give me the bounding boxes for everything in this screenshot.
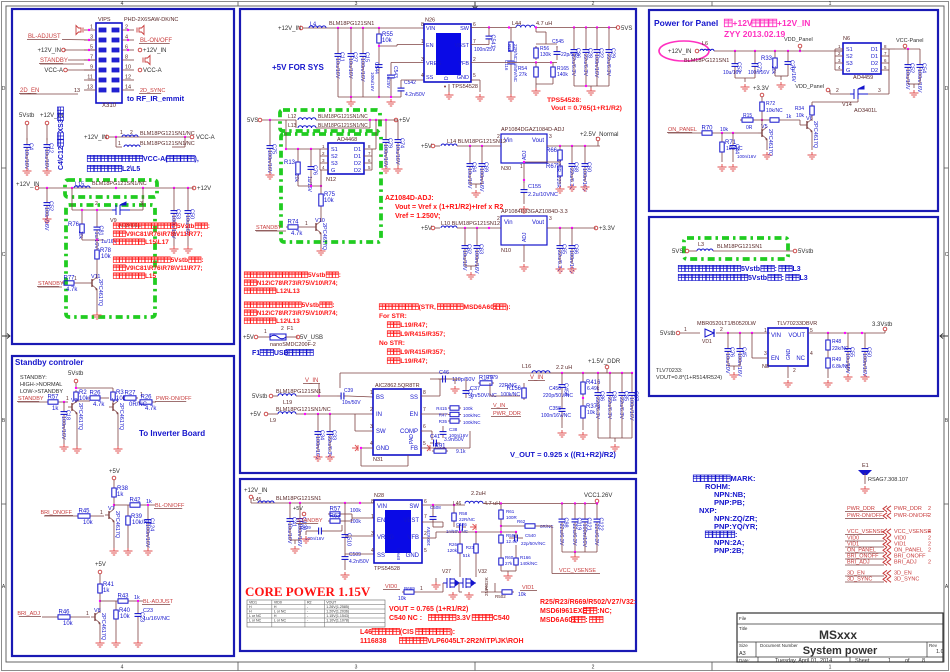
svg-text:S2: S2	[331, 154, 338, 160]
svg-text:100n/16V: 100n/16V	[861, 353, 867, 377]
svg-text:4: 4	[371, 548, 374, 554]
svg-text:100n/16V: 100n/16V	[737, 154, 756, 159]
inductor L4	[309, 26, 326, 28]
wire vfb	[422, 537, 436, 539]
svg-text:1u/16V/NC: 1u/16V/NC	[143, 616, 170, 622]
svg-text:2: 2	[281, 326, 284, 332]
resistor R502	[494, 583, 496, 592]
svg-text:1: 1	[520, 164, 523, 170]
resistor R166	[515, 545, 517, 556]
svg-text:10k: 10k	[796, 113, 805, 119]
svg-text:BLM18PG121SN1: BLM18PG121SN1	[684, 58, 729, 64]
capacitor C121	[584, 514, 586, 519]
svg-text:8: 8	[423, 390, 426, 396]
wire	[109, 136, 190, 138]
svg-text:E1: E1	[862, 463, 869, 469]
resistor R40	[115, 608, 117, 610]
ground	[568, 266, 577, 273]
ground	[777, 82, 786, 89]
svg-text:F1: F1	[252, 350, 260, 357]
ground	[291, 546, 300, 553]
transistor V8	[94, 613, 96, 621]
capacitor C50	[864, 342, 866, 349]
svg-text:2: 2	[836, 88, 839, 94]
svg-text:2: 2	[928, 513, 931, 519]
wire	[318, 384, 320, 397]
svg-text:C46: C46	[439, 370, 449, 376]
svg-text:R47: R47	[439, 413, 448, 418]
svg-text:3: 3	[371, 531, 374, 537]
svg-text:GND: GND	[457, 75, 469, 81]
capacitor C45	[739, 342, 741, 349]
svg-text:R13: R13	[284, 160, 296, 166]
svg-text:100n/16V: 100n/16V	[916, 69, 922, 93]
capacitor C545	[556, 46, 558, 48]
resistor R179	[478, 382, 480, 384]
svg-text:10k: 10k	[324, 198, 335, 204]
svg-text:AIC2862.5QR8TR: AIC2862.5QR8TR	[375, 383, 420, 389]
svg-text:2.2u/10VNC: 2.2u/10VNC	[528, 192, 558, 198]
svg-text:Vout: Vout	[532, 220, 544, 226]
svg-text:R45: R45	[78, 509, 90, 515]
svg-text:10u/16V: 10u/16V	[23, 149, 29, 170]
svg-text:V_IN: V_IN	[530, 375, 543, 381]
svg-text:5: 5	[473, 73, 476, 79]
ruler zone ticks	[237, 2, 239, 7]
capacitor C74	[394, 119, 398, 121]
svg-text:+12V_IN: +12V_IN	[16, 182, 40, 188]
annotation VCC-A note	[87, 155, 199, 163]
svg-text:G: G	[331, 168, 335, 174]
svg-text:1: 1	[829, 665, 832, 671]
ground	[472, 190, 481, 197]
capacitor C23	[137, 608, 139, 614]
wire gate	[857, 99, 859, 102]
svg-text:SW: SW	[460, 26, 470, 32]
svg-text:BLM18PG121SN1/NC: BLM18PG121SN1/NC	[140, 141, 195, 147]
svg-text:10u/16V: 10u/16V	[723, 70, 742, 76]
capacitor C68	[571, 156, 573, 164]
svg-text:1k: 1k	[134, 595, 140, 601]
svg-text:D: D	[2, 86, 6, 92]
wire GND pin	[471, 79, 480, 81]
svg-text:MSxxx: MSxxx	[819, 628, 857, 642]
svg-text:SW: SW	[409, 504, 419, 510]
svg-text:BLM18PG121SN1/NC: BLM18PG121SN1/NC	[92, 181, 147, 187]
wire	[442, 583, 444, 592]
resistor R46	[56, 616, 58, 618]
ground	[611, 444, 620, 451]
svg-text:1k: 1k	[52, 406, 59, 412]
svg-text:Tuesday, April 01, 2014: Tuesday, April 01, 2014	[775, 658, 832, 664]
svg-text:3: 3	[764, 351, 767, 357]
capacitor C41	[430, 442, 434, 444]
svg-text:D2: D2	[354, 168, 361, 174]
svg-text:VDD_Panel: VDD_Panel	[784, 37, 813, 43]
inductor L3	[689, 250, 697, 252]
svg-text:22u/6.3V: 22u/6.3V	[570, 54, 576, 76]
resistor R66	[559, 148, 561, 150]
capacitor C510	[344, 530, 346, 535]
svg-text:5Vstb: 5Vstb	[171, 257, 188, 264]
svg-text:C38: C38	[449, 427, 458, 432]
svg-text:10u/16V: 10u/16V	[286, 523, 292, 544]
svg-text:ZYY 2013.02.19: ZYY 2013.02.19	[724, 29, 786, 39]
svg-text:22u/6.3V: 22u/6.3V	[558, 524, 564, 546]
svg-text:L4: L4	[310, 22, 316, 28]
capacitor C60	[584, 146, 586, 156]
resistor R39	[127, 514, 129, 516]
capacitor C44	[732, 140, 734, 146]
speaker symbol pin2	[137, 26, 144, 35]
ground	[73, 446, 82, 453]
wire	[536, 43, 557, 45]
wire VFB	[471, 62, 557, 64]
svg-text:BRI_ONOFF: BRI_ONOFF	[41, 510, 73, 516]
svg-text:100n/16V: 100n/16V	[593, 54, 599, 78]
resistor R59	[500, 533, 502, 535]
svg-text:V14: V14	[842, 102, 852, 108]
svg-text:(STR,: (STR,	[419, 304, 436, 311]
wire EN	[751, 333, 753, 358]
capacitor C45	[739, 333, 741, 342]
output caps DDR	[607, 372, 632, 374]
wire gnd N31	[361, 447, 373, 449]
svg-text:AZ1084D-ADJ:: AZ1084D-ADJ:	[385, 195, 434, 202]
svg-text:R166: R166	[520, 555, 531, 560]
resistor R77	[62, 282, 64, 284]
capacitor C63	[476, 228, 478, 238]
svg-text:RSAG7.308.107: RSAG7.308.107	[868, 477, 908, 483]
svg-text:1: 1	[420, 586, 423, 592]
svg-text:EN: EN	[771, 356, 779, 362]
svg-text:12: 12	[125, 75, 131, 81]
capacitor C33	[329, 424, 331, 432]
svg-text:1: 1	[66, 396, 69, 402]
svg-text:4.7k: 4.7k	[145, 406, 157, 412]
resistor R61	[500, 504, 502, 509]
svg-text:System power: System power	[803, 645, 878, 657]
svg-text:H: H	[274, 605, 277, 609]
green highlight standby circuit	[66, 205, 155, 317]
svg-text:51k: 51k	[463, 553, 471, 558]
svg-text:C: C	[2, 252, 6, 258]
resistor R75	[320, 192, 322, 194]
svg-text:100u/16V: 100u/16V	[370, 72, 375, 91]
svg-text:GND: GND	[406, 553, 420, 559]
ground	[387, 99, 396, 106]
svg-text:100n/16V: 100n/16V	[359, 58, 365, 82]
wire	[868, 93, 889, 95]
svg-text:100k/NC: 100k/NC	[463, 413, 481, 418]
svg-text:R74: R74	[287, 220, 299, 226]
transistor V4	[112, 403, 114, 411]
svg-text:N12\C78\R73\R75\V10\R74;: N12\C78\R73\R75\V10\R74;	[257, 310, 338, 317]
svg-text:R502: R502	[495, 594, 506, 599]
svg-text:+12V_IN: +12V_IN	[278, 26, 302, 32]
ground	[93, 312, 102, 319]
svg-text:22u/6.3V: 22u/6.3V	[326, 436, 332, 458]
svg-text:MSD6A601: MSD6A601	[463, 304, 497, 311]
svg-text:8: 8	[125, 55, 128, 61]
wire DDR out	[550, 372, 607, 374]
svg-text:0R: 0R	[746, 125, 753, 131]
svg-text:VREG: VREG	[426, 61, 442, 67]
resistor R373	[582, 404, 584, 406]
capacitor C62	[464, 228, 466, 238]
svg-text:C4\C12: C4\C12	[58, 146, 65, 170]
svg-text:100n/25V: 100n/25V	[426, 527, 431, 546]
svg-text:VOUT: VOUT	[788, 333, 805, 339]
capacitor C4	[26, 138, 28, 145]
svg-text:10u/16V: 10u/16V	[904, 69, 910, 90]
svg-text:VIN: VIN	[771, 333, 781, 339]
svg-text:10u/16V: 10u/16V	[43, 149, 49, 170]
ground	[910, 90, 919, 97]
svg-text:C126: C126	[456, 522, 467, 527]
capacitor C542	[400, 80, 402, 84]
capacitor C540	[515, 532, 517, 538]
svg-text::: :	[775, 266, 777, 273]
svg-text:100k/NC: 100k/NC	[463, 420, 481, 425]
svg-text:100k: 100k	[350, 508, 361, 514]
svg-text:L or NC: L or NC	[274, 610, 287, 614]
svg-text:BRI_ADJ: BRI_ADJ	[847, 560, 870, 566]
svg-text:100n/16V: 100n/16V	[581, 524, 587, 548]
speaker symbol pin1	[76, 26, 83, 35]
wire 5VS rail	[535, 27, 617, 29]
output caps	[573, 26, 575, 28]
svg-text:C540: C540	[493, 615, 510, 622]
svg-text:VID1: VID1	[249, 601, 257, 605]
capacitor C124	[147, 505, 149, 514]
wire	[250, 499, 252, 503]
svg-text:V_OUT = 0.925 x ((R1+R2)/R2): V_OUT = 0.925 x ((R1+R2)/R2)	[510, 450, 616, 459]
svg-text:10k: 10k	[83, 520, 94, 526]
annotation STR	[379, 304, 510, 311]
wire SW out	[471, 27, 516, 29]
svg-text:L45: L45	[253, 497, 262, 503]
capacitor C543	[390, 63, 392, 71]
svg-text:1: 1	[86, 611, 89, 617]
svg-text:VREG: VREG	[377, 535, 394, 541]
svg-text:100n/16V: 100n/16V	[382, 144, 388, 168]
capacitor C76b	[727, 333, 729, 342]
svg-text:13: 13	[74, 88, 80, 94]
svg-text:F1: F1	[287, 326, 293, 332]
capacitor C76	[310, 149, 312, 160]
capacitor C37	[465, 386, 467, 391]
svg-text:to RF_IR_emmit: to RF_IR_emmit	[127, 94, 185, 103]
svg-text:PNP:PB;: PNP:PB;	[714, 498, 745, 507]
svg-text:+5V: +5V	[399, 118, 410, 124]
svg-text:PWR-ON/OFF: PWR-ON/OFF	[847, 513, 883, 519]
capacitor C76	[727, 342, 729, 349]
capacitor C63	[476, 238, 478, 246]
output caps core	[561, 502, 563, 504]
capacitor C26	[573, 44, 575, 50]
svg-text:14: 14	[125, 85, 131, 91]
wire VCC rail	[483, 503, 597, 505]
svg-text:BL-ON/OFF: BL-ON/OFF	[155, 503, 185, 509]
svg-text:3: 3	[370, 424, 373, 430]
ground	[558, 430, 567, 437]
svg-text:Vin: Vin	[504, 220, 513, 226]
svg-text:L3: L3	[793, 266, 801, 273]
svg-text:2PC4617Q: 2PC4617Q	[321, 223, 327, 251]
svg-text:130k: 130k	[540, 52, 551, 58]
ground	[507, 94, 516, 101]
svg-text:1k: 1k	[786, 114, 792, 120]
svg-text:+2.5V_Normal: +2.5V_Normal	[580, 132, 619, 138]
capacitor C27	[350, 28, 352, 48]
ground	[568, 184, 577, 191]
svg-text:27k: 27k	[505, 561, 513, 566]
svg-text:+12V_IN: +12V_IN	[143, 48, 167, 54]
svg-text:nanoSMDC200F-2: nanoSMDC200F-2	[270, 342, 316, 348]
svg-text:BLM18PG121SN1/NC: BLM18PG121SN1/NC	[318, 114, 368, 120]
capacitor C64	[469, 146, 471, 156]
svg-text:STANDBY: STANDBY	[297, 518, 323, 524]
svg-text:VCC_VSENSE: VCC_VSENSE	[894, 529, 931, 535]
svg-text:100k/NC: 100k/NC	[501, 392, 521, 398]
svg-text::: :	[782, 275, 784, 282]
svg-text:+5V: +5V	[250, 412, 261, 418]
capacitor C52	[46, 196, 48, 203]
capacitor C52	[46, 188, 48, 196]
svg-text:PAD: PAD	[409, 434, 415, 444]
svg-text:GND: GND	[376, 446, 390, 452]
svg-text:of: of	[905, 658, 910, 664]
wire	[489, 383, 491, 396]
ground	[184, 246, 193, 253]
svg-text:V9\C81\R76\R78\V11\R77;: V9\C81\R76\R78\V11\R77;	[126, 231, 203, 238]
resistor R66	[559, 146, 561, 148]
resistor R669	[402, 591, 404, 593]
svg-text:5Vstb: 5Vstb	[308, 272, 325, 279]
resistor R40	[115, 603, 117, 608]
resistor R13	[297, 149, 299, 160]
wire SW	[355, 430, 373, 432]
svg-text:L46: L46	[360, 629, 372, 636]
svg-text:100n/16V: 100n/16V	[568, 250, 574, 274]
resistor R165	[552, 63, 554, 66]
svg-text:2PC4617Q: 2PC4617Q	[118, 403, 124, 431]
svg-text:4.7k: 4.7k	[93, 402, 105, 408]
svg-text:VCC_VSENSE: VCC_VSENSE	[559, 568, 596, 574]
svg-text:100n/16V: 100n/16V	[314, 436, 320, 460]
ground	[96, 640, 105, 647]
svg-text:VCC-A: VCC-A	[143, 68, 162, 74]
svg-text:R23: R23	[466, 545, 475, 550]
svg-text:C540: C540	[525, 533, 536, 538]
transistor V5	[761, 129, 763, 137]
resistor R416	[582, 380, 584, 382]
wire	[100, 600, 116, 602]
svg-text:10k/NC: 10k/NC	[766, 108, 783, 114]
svg-text:3: 3	[355, 1, 358, 7]
resistor R57	[328, 513, 330, 515]
capacitor C68	[571, 146, 573, 156]
wire rail	[714, 50, 843, 52]
svg-text:22u/6.3V: 22u/6.3V	[606, 397, 612, 419]
resistor R13	[297, 160, 299, 162]
svg-text:Standby controler: Standby controler	[15, 358, 83, 367]
svg-text:2: 2	[928, 548, 931, 554]
ground	[581, 184, 590, 191]
svg-text:5Vstb: 5Vstb	[68, 371, 84, 377]
capacitor C22	[596, 44, 598, 50]
wire SS	[401, 79, 424, 81]
svg-text:R72: R72	[766, 101, 775, 107]
svg-text:C39: C39	[344, 388, 353, 394]
svg-text:+5V: +5V	[243, 335, 254, 341]
svg-text:VDD_Panel: VDD_Panel	[795, 84, 824, 90]
svg-text:1: 1	[684, 327, 687, 333]
ground	[465, 592, 474, 599]
svg-text:10k: 10k	[382, 38, 393, 44]
svg-text:4: 4	[370, 441, 373, 447]
ground	[729, 164, 738, 171]
svg-text:1: 1	[74, 276, 77, 282]
svg-text:8: 8	[371, 499, 374, 505]
wire	[26, 125, 28, 140]
ground	[556, 186, 565, 193]
svg-text:Title: Title	[739, 626, 748, 631]
ground	[112, 640, 121, 647]
svg-text:X310: X310	[102, 103, 117, 109]
ground	[532, 88, 541, 95]
svg-text:VIPS: VIPS	[98, 17, 111, 23]
svg-text:3.3Vstb: 3.3Vstb	[872, 322, 893, 328]
svg-text:MSD6A601: MSD6A601	[540, 617, 576, 624]
green highlight L15	[65, 180, 157, 197]
svg-text:7: 7	[424, 514, 427, 520]
svg-text:L15\L17: L15\L17	[145, 239, 169, 246]
ground	[844, 374, 853, 381]
svg-text:STANDBY: STANDBY	[18, 396, 44, 402]
svg-text:3: 3	[878, 88, 881, 94]
svg-text:C41: C41	[430, 434, 440, 440]
resistor R33	[774, 51, 776, 56]
ground	[861, 374, 870, 381]
svg-text:100n/16V: 100n/16V	[473, 250, 479, 274]
svg-text:2: 2	[592, 1, 595, 7]
svg-text:BLM18PG121SN1: BLM18PG121SN1	[329, 21, 374, 27]
ground	[763, 152, 772, 159]
inductor L15	[74, 186, 90, 188]
resistor R33	[774, 56, 776, 58]
svg-text:+5V: +5V	[421, 144, 432, 150]
svg-text:100n/16V: 100n/16V	[581, 168, 587, 192]
svg-text:2: 2	[928, 560, 931, 566]
svg-text:VOUT: VOUT	[326, 601, 337, 605]
resistor R156	[523, 386, 525, 388]
title block	[737, 613, 943, 662]
capacitor C23	[137, 601, 139, 608]
svg-text:L3: L3	[698, 242, 704, 248]
svg-text:R58: R58	[459, 511, 468, 516]
svg-text:N10: N10	[501, 248, 511, 254]
wire	[297, 176, 299, 186]
ground	[467, 272, 476, 279]
resistor R86	[510, 28, 512, 41]
svg-text:C456: C456	[549, 386, 561, 392]
capacitor C155	[523, 180, 525, 184]
svg-text:R46: R46	[58, 610, 70, 616]
wire	[113, 521, 115, 548]
svg-text:C: C	[945, 252, 949, 258]
